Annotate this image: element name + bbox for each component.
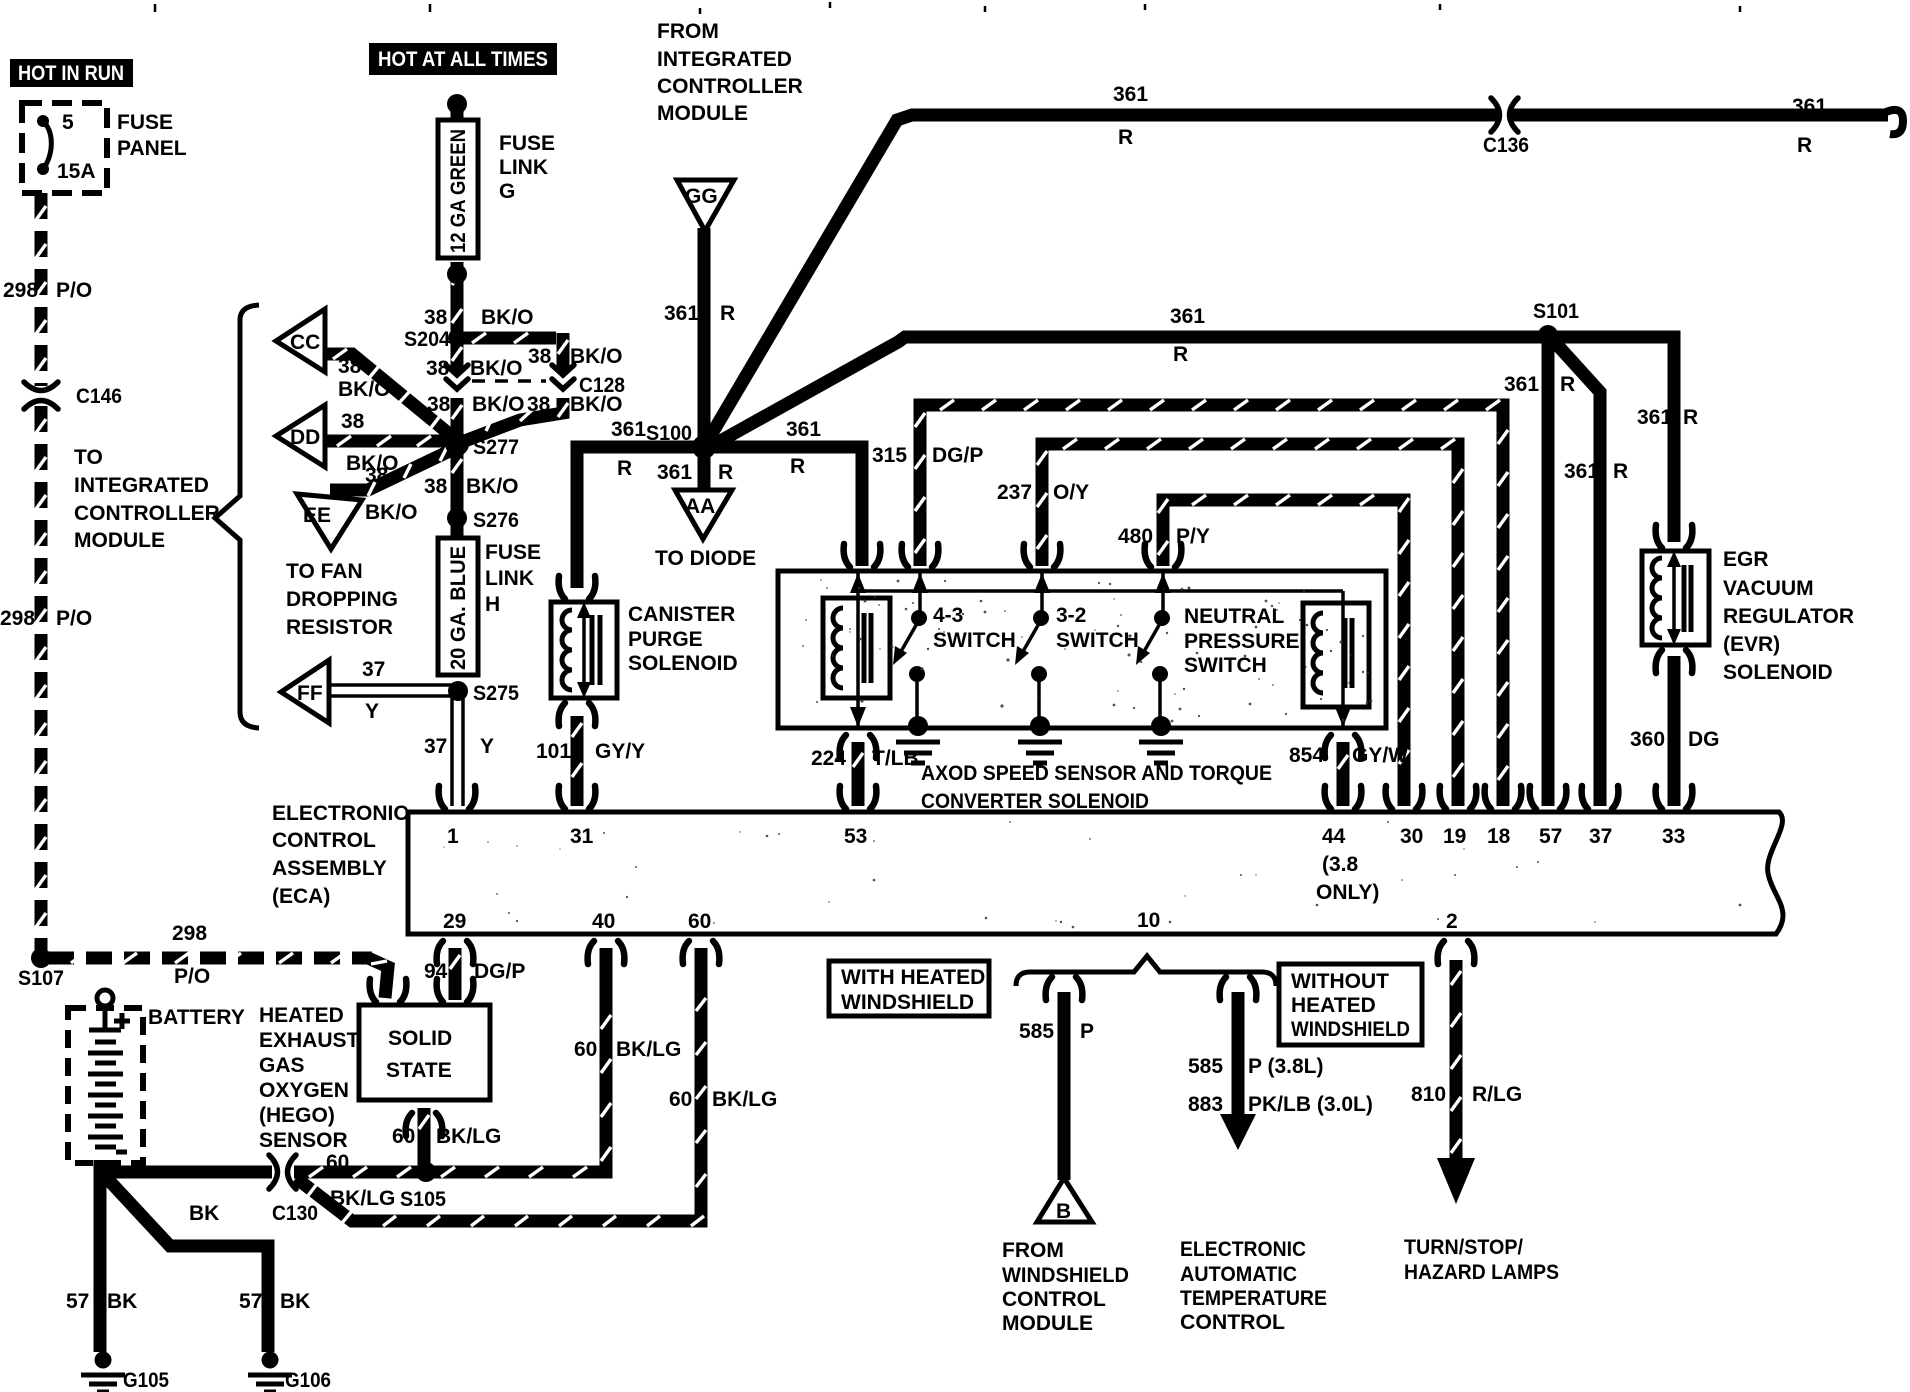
wire 585 P / 883 PK/LB from ECA pin 10 brace down to EATC arrow xyxy=(1232,992,1245,1118)
wire 298 P/O from fuse panel down to S107 (dashed) xyxy=(35,193,48,386)
svg-text:OXYGEN: OXYGEN xyxy=(259,1079,349,1102)
wire 101 GY/Y from canister purge solenoid down to ECA pin 31 xyxy=(571,716,584,806)
svg-text:361: 361 xyxy=(1564,460,1599,483)
wire 585 P from ECA pin 10 brace down to triangle B xyxy=(1058,992,1071,1180)
svg-text:585: 585 xyxy=(1188,1055,1223,1078)
svg-text:Y: Y xyxy=(480,735,494,758)
HOT IN RUN header box xyxy=(10,59,133,87)
svg-text:R: R xyxy=(1560,373,1575,396)
ground G106 xyxy=(248,1352,292,1392)
brace to integrated controller module xyxy=(215,305,259,728)
svg-text:15A: 15A xyxy=(57,160,96,183)
svg-text:57: 57 xyxy=(66,1290,89,1313)
svg-text:BK: BK xyxy=(280,1290,310,1313)
wire 57 BK from battery junction to G106 xyxy=(103,1174,268,1352)
ECA pin 37 connector cup xyxy=(1582,786,1619,809)
wire 361 R from S100 left to canister purge solenoid xyxy=(577,447,704,588)
svg-text:BK/O: BK/O xyxy=(338,378,391,401)
svg-text:PRESSURE: PRESSURE xyxy=(1184,630,1300,653)
wire 361 R from S100 up to triangle GG xyxy=(698,228,711,447)
svg-text:FF: FF xyxy=(297,682,323,705)
svg-text:20 GA. BLUE: 20 GA. BLUE xyxy=(447,546,470,670)
svg-text:LINK: LINK xyxy=(499,156,548,179)
svg-text:BK/O: BK/O xyxy=(470,357,523,380)
svg-text:MODULE: MODULE xyxy=(1002,1312,1093,1335)
wire 60 BK/LG from C130 down to ECA pin 60 xyxy=(296,948,701,1221)
neutral pressure switch xyxy=(1161,571,1165,614)
svg-text:DG: DG xyxy=(1688,728,1720,751)
svg-text:44: 44 xyxy=(1322,825,1346,848)
AXOD entry cup wire 480 xyxy=(1145,544,1182,567)
brace under ECA pin 10 xyxy=(1016,956,1276,986)
svg-text:FUSE: FUSE xyxy=(499,132,555,155)
svg-text:WITHOUT: WITHOUT xyxy=(1291,970,1389,993)
svg-text:WINDSHIELD: WINDSHIELD xyxy=(1002,1264,1129,1287)
AXOD speed sensor and torque converter solenoid box xyxy=(778,571,1386,728)
arrowhead to electronic automatic temperature control xyxy=(1220,1114,1256,1150)
svg-text:EXHAUST: EXHAUST xyxy=(259,1029,360,1052)
wire 38 BK/O from S277 to triangle EE xyxy=(330,447,458,490)
svg-text:MODULE: MODULE xyxy=(74,529,165,552)
cup above canister purge solenoid xyxy=(559,576,596,599)
svg-text:101: 101 xyxy=(536,740,571,763)
node above fuse link G xyxy=(447,94,467,114)
svg-text:ELECTRONIC: ELECTRONIC xyxy=(1180,1238,1306,1261)
svg-text:361: 361 xyxy=(1170,305,1205,328)
connector C128 right half xyxy=(552,365,574,389)
battery terminal xyxy=(97,990,113,1006)
AXOD right solenoid xyxy=(1303,603,1369,707)
wire 38 BK/O from fuse link G down through S204 to S277 xyxy=(451,108,464,436)
wire from S276 to fuse link H xyxy=(451,524,464,538)
svg-text:AUTOMATIC: AUTOMATIC xyxy=(1180,1263,1297,1286)
svg-text:S100: S100 xyxy=(646,422,692,445)
svg-text:TO FAN: TO FAN xyxy=(286,560,363,583)
AXOD entry cup wire 237 xyxy=(1024,544,1061,567)
triangle CC (to integrated controller module) xyxy=(276,309,325,372)
wire 37 Y hollow from triangle FF to S275 xyxy=(330,685,452,696)
connector C130 on battery wire xyxy=(269,1155,296,1189)
node S277 xyxy=(445,432,469,456)
svg-text:P/O: P/O xyxy=(56,279,92,302)
svg-text:C146: C146 xyxy=(76,385,122,408)
cup below canister purge solenoid xyxy=(559,703,596,726)
svg-text:R: R xyxy=(1173,343,1188,366)
svg-text:38: 38 xyxy=(527,393,551,416)
svg-text:HOT AT ALL TIMES: HOT AT ALL TIMES xyxy=(378,48,548,71)
svg-text:R: R xyxy=(1118,126,1133,149)
svg-text:S107: S107 xyxy=(18,967,64,990)
svg-text:DG/P: DG/P xyxy=(932,444,983,467)
svg-text:4-3: 4-3 xyxy=(933,604,963,627)
svg-text:BK: BK xyxy=(189,1202,219,1225)
svg-text:40: 40 xyxy=(592,910,615,933)
triangle EE (to fan dropping resistor) xyxy=(297,494,362,549)
svg-text:60: 60 xyxy=(392,1125,415,1148)
svg-text:CANISTER: CANISTER xyxy=(628,603,735,626)
white hatch slashes on wires xyxy=(36,206,1508,1226)
wire 361 R from S100 diagonal to S101 xyxy=(706,337,1548,449)
svg-text:ONLY): ONLY) xyxy=(1316,881,1379,904)
wire BK from battery to connector C130 xyxy=(100,1160,272,1172)
svg-text:WITH HEATED: WITH HEATED xyxy=(841,966,985,989)
wire 60 BK/LG from solid state module down to S105 xyxy=(418,1108,431,1168)
ECA pin 2 connector cup xyxy=(1438,941,1475,964)
wire 237 O/Y from AXOD 3-2 switch up and right to ECA pin 19 xyxy=(1042,444,1458,806)
svg-text:224: 224 xyxy=(811,747,846,770)
svg-text:2: 2 xyxy=(1446,910,1458,933)
svg-text:AA: AA xyxy=(685,495,715,518)
wire 854 GY/W from AXOD right solenoid down to ECA pin 44 xyxy=(1337,742,1350,806)
svg-text:FROM: FROM xyxy=(657,20,719,43)
svg-text:HEATED: HEATED xyxy=(1291,994,1376,1017)
svg-text:P (3.8L): P (3.8L) xyxy=(1248,1055,1323,1078)
node S105 xyxy=(416,1162,436,1182)
neutral pressure switch ground xyxy=(1139,716,1183,763)
svg-text:PANEL: PANEL xyxy=(117,137,187,160)
svg-text:57: 57 xyxy=(1539,825,1562,848)
svg-text:S276: S276 xyxy=(473,509,519,532)
svg-text:BK/O: BK/O xyxy=(472,393,525,416)
svg-text:TURN/STOP/: TURN/STOP/ xyxy=(1404,1236,1523,1259)
svg-text:BK/O: BK/O xyxy=(365,501,418,524)
svg-text:298: 298 xyxy=(172,922,207,945)
svg-text:60: 60 xyxy=(688,910,711,933)
cup at top of 585 P wire xyxy=(1046,977,1083,1000)
wire 810 R/LG from ECA pin 2 down to turn/stop/hazard lamps arrow xyxy=(1450,960,1463,1162)
svg-text:361: 361 xyxy=(611,418,646,441)
svg-text:361: 361 xyxy=(1504,373,1539,396)
electronic control assembly (ECA) box xyxy=(408,812,1783,934)
svg-text:361: 361 xyxy=(786,418,821,441)
svg-text:1: 1 xyxy=(447,825,459,848)
svg-text:R: R xyxy=(1683,406,1698,429)
node below fuse link G xyxy=(447,264,467,284)
svg-text:3-2: 3-2 xyxy=(1056,604,1086,627)
arrowhead to turn/stop/hazard lamps xyxy=(1437,1158,1475,1204)
svg-text:883: 883 xyxy=(1188,1093,1223,1116)
svg-text:CONTROLLER: CONTROLLER xyxy=(657,75,803,98)
svg-text:P/O: P/O xyxy=(174,965,210,988)
wire 57 BK from battery junction down to G105 xyxy=(94,1166,107,1352)
node S107 xyxy=(31,948,51,968)
battery plates xyxy=(88,1042,127,1152)
svg-text:PK/LB (3.0L): PK/LB (3.0L) xyxy=(1248,1093,1373,1116)
wire 361 R from S101 right then down to EVR solenoid xyxy=(1548,337,1674,542)
svg-text:EE: EE xyxy=(303,504,331,527)
svg-text:SOLENOID: SOLENOID xyxy=(628,652,738,675)
AXOD exit cup wire 224 xyxy=(840,735,877,758)
AXOD left solenoid xyxy=(823,598,890,698)
ECA pin 40 connector cup xyxy=(588,941,625,964)
svg-text:19: 19 xyxy=(1443,825,1466,848)
wire 224 T/LB from AXOD left solenoid down to ECA pin 53 xyxy=(852,742,865,806)
connector C128 left half xyxy=(446,365,468,389)
svg-text:GY/W: GY/W xyxy=(1352,744,1408,767)
svg-text:VACUUM: VACUUM xyxy=(1723,577,1814,600)
svg-text:SWITCH: SWITCH xyxy=(1184,654,1267,677)
svg-text:BK/LG: BK/LG xyxy=(616,1038,681,1061)
svg-text:CONTROL: CONTROL xyxy=(1180,1311,1285,1334)
svg-text:53: 53 xyxy=(844,825,867,848)
svg-text:O/Y: O/Y xyxy=(1053,481,1089,504)
wire 38 BK/O from S277 down to S276 xyxy=(451,452,464,512)
cup at top of EATC wire xyxy=(1220,977,1257,1000)
node S100 xyxy=(692,435,716,459)
svg-text:EGR: EGR xyxy=(1723,548,1769,571)
svg-text:31: 31 xyxy=(570,825,594,848)
svg-text:38: 38 xyxy=(365,464,389,487)
svg-text:S105: S105 xyxy=(400,1188,446,1211)
solid state module left pin cup xyxy=(370,979,407,1002)
wire 360 DG from EVR solenoid down to ECA pin 33 xyxy=(1668,656,1681,806)
svg-text:P/Y: P/Y xyxy=(1176,525,1210,548)
svg-text:C136: C136 xyxy=(1483,134,1529,157)
svg-text:810: 810 xyxy=(1411,1083,1446,1106)
svg-text:R: R xyxy=(1613,460,1628,483)
node S101 xyxy=(1538,325,1558,345)
svg-text:CONTROL: CONTROL xyxy=(272,829,376,852)
svg-text:B: B xyxy=(1056,1200,1071,1223)
wire 38 BK/O from S204 right to C128 xyxy=(457,333,563,372)
svg-text:R: R xyxy=(790,455,805,478)
svg-text:298: 298 xyxy=(0,607,35,630)
svg-text:60: 60 xyxy=(574,1038,597,1061)
wire 361 R from S101 diagonal down to ECA pin 37 xyxy=(1551,338,1600,806)
ECA pin 53 connector cup xyxy=(840,786,877,809)
triangle FF xyxy=(281,660,329,723)
svg-text:10: 10 xyxy=(1137,909,1160,932)
svg-text:5: 5 xyxy=(62,111,74,134)
without heated windshield box xyxy=(1279,964,1422,1045)
svg-text:TEMPERATURE: TEMPERATURE xyxy=(1180,1287,1327,1310)
fuse panel dashed box xyxy=(22,103,107,193)
svg-text:SENSOR: SENSOR xyxy=(259,1129,348,1152)
svg-text:TO DIODE: TO DIODE xyxy=(655,547,756,570)
wire 38 BK/O from triangle CC to S277 xyxy=(326,354,459,442)
svg-text:18: 18 xyxy=(1487,825,1511,848)
svg-text:LINK: LINK xyxy=(485,567,534,590)
ECA pin 31 connector cup xyxy=(559,786,596,809)
svg-text:298: 298 xyxy=(3,279,38,302)
svg-text:G: G xyxy=(499,180,515,203)
svg-text:315: 315 xyxy=(872,444,907,467)
svg-text:HAZARD LAMPS: HAZARD LAMPS xyxy=(1404,1261,1559,1284)
AXOD exit cup wire 854 xyxy=(1325,735,1362,758)
node S275 xyxy=(448,681,468,701)
scan speckle texture xyxy=(443,579,1741,928)
svg-text:SOLENOID: SOLENOID xyxy=(1723,661,1833,684)
svg-text:R: R xyxy=(720,302,735,325)
svg-text:ELECTRONIC: ELECTRONIC xyxy=(272,802,409,825)
4-3 switch xyxy=(918,571,922,614)
cup below EVR solenoid xyxy=(1656,650,1693,673)
svg-text:SWITCH: SWITCH xyxy=(1056,629,1139,652)
svg-text:GAS: GAS xyxy=(259,1054,305,1077)
fuse link H box 20 GA. BLUE xyxy=(438,538,478,675)
svg-text:S204: S204 xyxy=(404,328,450,351)
svg-text:38: 38 xyxy=(424,475,448,498)
svg-text:60: 60 xyxy=(669,1088,692,1111)
battery dashed box xyxy=(68,1008,143,1163)
solid state module right pin cup xyxy=(437,979,474,1002)
3-2 switch ground xyxy=(1018,716,1062,763)
svg-text:DG/P: DG/P xyxy=(474,960,525,983)
svg-text:DROPPING: DROPPING xyxy=(286,588,398,611)
svg-text:38: 38 xyxy=(424,306,448,329)
svg-text:37: 37 xyxy=(1589,825,1612,848)
ECA pin 60 connector cup xyxy=(683,941,720,964)
svg-text:(EVR): (EVR) xyxy=(1723,633,1780,656)
svg-text:GY/Y: GY/Y xyxy=(595,740,645,763)
4-3 switch ground xyxy=(896,716,940,763)
svg-text:57: 57 xyxy=(239,1290,262,1313)
svg-text:AXOD SPEED SENSOR AND TORQUE: AXOD SPEED SENSOR AND TORQUE xyxy=(921,762,1272,785)
tick marks along top edge xyxy=(155,2,1740,14)
svg-text:R: R xyxy=(1797,134,1812,157)
ECA pin 30 connector cup xyxy=(1386,786,1423,809)
connector C136 on wire 361 xyxy=(1491,98,1518,132)
svg-text:BK/LG: BK/LG xyxy=(436,1125,501,1148)
svg-text:38: 38 xyxy=(427,393,451,416)
ECA pin 1 connector cup xyxy=(439,786,476,809)
svg-text:(HEGO): (HEGO) xyxy=(259,1104,335,1127)
svg-text:FUSE: FUSE xyxy=(117,111,173,134)
svg-text:WINDSHIELD: WINDSHIELD xyxy=(841,991,974,1014)
svg-text:INTEGRATED: INTEGRATED xyxy=(657,48,792,71)
ECA pin 29 connector cup xyxy=(437,941,474,964)
AXOD internal bus line xyxy=(858,589,1343,593)
svg-text:MODULE: MODULE xyxy=(657,102,748,125)
svg-text:R/LG: R/LG xyxy=(1472,1083,1522,1106)
svg-text:PURGE: PURGE xyxy=(628,628,703,651)
svg-text:237: 237 xyxy=(997,481,1032,504)
svg-text:P: P xyxy=(1080,1020,1094,1043)
svg-text:360: 360 xyxy=(1630,728,1665,751)
svg-text:361: 361 xyxy=(1792,95,1827,118)
svg-text:361: 361 xyxy=(664,302,699,325)
wire 361 R from S100 down to triangle AA (to diode) xyxy=(698,447,711,492)
svg-text:HEATED: HEATED xyxy=(259,1004,344,1027)
svg-text:RESISTOR: RESISTOR xyxy=(286,616,393,639)
svg-text:33: 33 xyxy=(1662,825,1685,848)
svg-text:REGULATOR: REGULATOR xyxy=(1723,605,1854,628)
svg-text:ASSEMBLY: ASSEMBLY xyxy=(272,857,387,880)
cup below solid state module xyxy=(406,1113,443,1136)
svg-text:DD: DD xyxy=(290,426,320,449)
svg-text:12 GA GREEN: 12 GA GREEN xyxy=(447,129,470,253)
svg-text:854: 854 xyxy=(1289,744,1324,767)
wire 298 P/O from S107 right to solid state module xyxy=(48,952,372,965)
wire 361 R from S100 diagonal to top then right to C136 and right edge xyxy=(704,115,1888,447)
svg-text:CONTROL: CONTROL xyxy=(1002,1288,1106,1311)
with heated windshield box xyxy=(829,961,989,1016)
svg-text:HOT IN RUN: HOT IN RUN xyxy=(18,62,124,85)
svg-text:S101: S101 xyxy=(1533,300,1579,323)
svg-text:BK/LG: BK/LG xyxy=(330,1187,395,1210)
svg-text:BK/O: BK/O xyxy=(481,306,534,329)
svg-text:38: 38 xyxy=(426,357,450,380)
svg-text:FUSE: FUSE xyxy=(485,541,541,564)
node S204 xyxy=(448,329,466,347)
svg-text:TO: TO xyxy=(74,446,103,469)
svg-text:37: 37 xyxy=(424,735,447,758)
svg-text:480: 480 xyxy=(1118,525,1153,548)
wire 38 BK/O from triangle DD to S277 xyxy=(326,435,455,448)
hook at right end of 361 R top wire xyxy=(1886,110,1903,134)
wire 480 P/Y from AXOD neutral pressure switch up and right to ECA pin 30 xyxy=(1163,500,1404,806)
ECA pin 18 connector cup xyxy=(1485,786,1522,809)
svg-text:361: 361 xyxy=(657,461,692,484)
svg-text:361: 361 xyxy=(1113,83,1148,106)
svg-text:STATE: STATE xyxy=(386,1059,452,1082)
svg-text:BK: BK xyxy=(107,1290,137,1313)
svg-text:SWITCH: SWITCH xyxy=(933,629,1016,652)
svg-text:BK/O: BK/O xyxy=(570,393,623,416)
AXOD entry cup wire 361 xyxy=(844,544,881,567)
svg-text:BK/O: BK/O xyxy=(466,475,519,498)
ground G105 xyxy=(81,1352,125,1392)
ECA pin 19 connector cup xyxy=(1440,786,1477,809)
svg-text:38: 38 xyxy=(338,355,362,378)
cup above EVR solenoid xyxy=(1656,525,1693,548)
EGR vacuum regulator (EVR) solenoid xyxy=(1642,551,1709,645)
svg-text:94: 94 xyxy=(424,960,448,983)
svg-text:S275: S275 xyxy=(473,682,519,705)
svg-text:585: 585 xyxy=(1019,1020,1054,1043)
svg-text:Y: Y xyxy=(365,700,379,723)
svg-text:R: R xyxy=(718,461,733,484)
svg-text:BK/LG: BK/LG xyxy=(712,1088,777,1111)
svg-text:CONVERTER SOLENOID: CONVERTER SOLENOID xyxy=(921,790,1149,813)
svg-text:NEUTRAL: NEUTRAL xyxy=(1184,605,1284,628)
svg-text:FROM: FROM xyxy=(1002,1239,1064,1262)
triangle DD (to integrated controller module) xyxy=(276,405,325,467)
svg-text:C130: C130 xyxy=(272,1202,318,1225)
connector C146 on wire 298 xyxy=(24,382,58,409)
svg-text:(ECA): (ECA) xyxy=(272,885,330,908)
svg-text:BATTERY: BATTERY xyxy=(148,1006,245,1029)
triangle B (from windshield control module) xyxy=(1037,1178,1092,1222)
svg-text:CONTROLLER: CONTROLLER xyxy=(74,502,220,525)
3-2 switch xyxy=(1040,571,1044,614)
ECA pin 33 connector cup xyxy=(1656,786,1693,809)
svg-text:R: R xyxy=(617,457,632,480)
fuse 5 15A symbol xyxy=(43,121,51,169)
svg-text:(3.8: (3.8 xyxy=(1322,853,1359,876)
wire 37 Y hollow from S275 down to ECA pin 1 xyxy=(452,698,463,806)
svg-text:SOLID: SOLID xyxy=(388,1027,452,1050)
node S276 xyxy=(447,508,467,528)
svg-text:WINDSHIELD: WINDSHIELD xyxy=(1291,1018,1410,1041)
svg-text:60: 60 xyxy=(326,1151,349,1174)
svg-text:INTEGRATED: INTEGRATED xyxy=(74,474,209,497)
svg-text:38: 38 xyxy=(341,410,365,433)
ECA pin 57 connector cup xyxy=(1530,786,1567,809)
svg-text:S277: S277 xyxy=(473,436,519,459)
svg-text:38: 38 xyxy=(528,345,552,368)
svg-text:T/LB: T/LB xyxy=(872,747,919,770)
wire 315 DG/P from AXOD 4-3 switch up and right to ECA pin 18 xyxy=(920,405,1503,806)
wire 361 R from S101 down to ECA pin 57 xyxy=(1542,335,1555,806)
svg-text:P/O: P/O xyxy=(56,607,92,630)
ECA pin 44 connector cup xyxy=(1325,786,1362,809)
svg-text:G106: G106 xyxy=(285,1369,331,1392)
triangle GG (from integrated controller module) xyxy=(677,180,734,231)
wire 361 R from S100 right to AXOD left solenoid entry xyxy=(704,447,862,566)
triangle AA (to diode) xyxy=(675,490,732,539)
svg-text:GG: GG xyxy=(685,185,718,208)
